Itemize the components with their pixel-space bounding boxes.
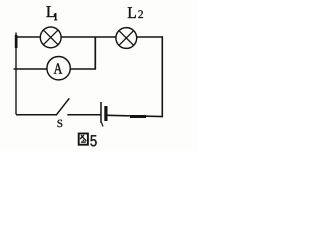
lamp L2 <box>116 28 137 49</box>
wire top right <box>137 36 163 38</box>
wire left vertical <box>15 33 17 115</box>
caption digit 5 <box>90 135 96 146</box>
wire battery to right <box>108 115 163 116</box>
wire top middle <box>61 36 116 38</box>
label L2 letter L <box>128 7 136 18</box>
wire bottom left <box>16 114 56 116</box>
lamp L1 <box>40 27 61 48</box>
wire ammeter left <box>14 68 47 70</box>
ammeter U1 <box>47 56 70 79</box>
wire top left <box>15 36 40 38</box>
battery tick at plate bottom <box>102 123 104 127</box>
wire bottom thick segment <box>130 115 146 118</box>
battery long plate <box>100 102 102 123</box>
caption figure glyph 图 <box>79 134 88 145</box>
wire left vertical thick segment <box>15 35 18 48</box>
label L1 letter L <box>46 6 55 17</box>
switch S <box>56 98 69 115</box>
label L1 subscript 1 <box>54 13 57 20</box>
wire right vertical <box>161 36 163 117</box>
label L2 number 2 <box>138 10 143 18</box>
wire ammeter right <box>70 68 96 70</box>
node junction T <box>94 37 96 69</box>
battery short thick plate <box>104 106 107 121</box>
ammeter letter A <box>54 63 63 73</box>
wire switch to battery <box>67 114 100 116</box>
label S <box>58 120 63 127</box>
